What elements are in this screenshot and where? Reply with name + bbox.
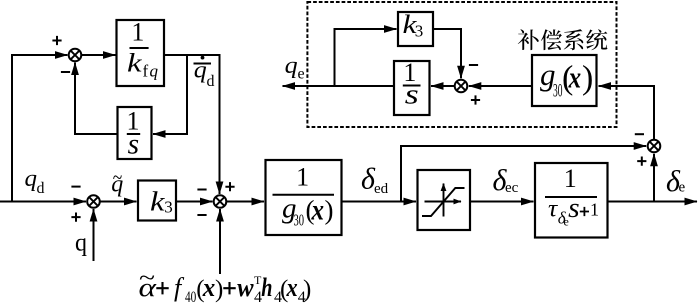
block 1/g30(x) (266, 160, 342, 235)
svg-text:x: x (286, 273, 298, 302)
svg-text:q: q (25, 166, 38, 192)
wire saturation to lag block (470, 201, 534, 203)
svg-text:1: 1 (131, 18, 144, 47)
wire branch delta_ed up to J4 (401, 146, 646, 202)
svg-text:x: x (311, 194, 324, 227)
plus sign J3 top (225, 182, 234, 191)
bottom equation (139, 266, 312, 303)
svg-text:q: q (194, 58, 207, 84)
block 1/(tau s+1) (535, 163, 608, 238)
svg-text:h: h (261, 273, 272, 302)
svg-text:s: s (128, 127, 140, 160)
svg-text:): ) (582, 59, 593, 96)
svg-text:3: 3 (415, 22, 424, 41)
summing junction J4 (648, 140, 661, 153)
svg-text:30: 30 (294, 211, 305, 230)
wire J4 up into g30 (599, 86, 655, 140)
block g30(x) compensation (532, 55, 597, 106)
wire J3 to 1/g30 (226, 201, 264, 203)
svg-text:40: 40 (185, 289, 196, 303)
plus sign J5 (471, 95, 480, 104)
wire branch down into 1/s (153, 55, 187, 134)
saturation block (418, 170, 471, 230)
svg-text:1: 1 (564, 164, 577, 193)
summing junction J2 (87, 195, 100, 208)
minus sign J4 (635, 133, 644, 135)
svg-text:ec: ec (505, 180, 519, 196)
wire q input up into J2 (93, 209, 95, 261)
svg-text:~: ~ (113, 165, 123, 190)
svg-text:q: q (150, 62, 159, 81)
wire 1/g30 to saturation (342, 201, 417, 203)
block 1/s upper-left (118, 107, 152, 159)
chinese label: compensation system (518, 29, 608, 50)
svg-text:): ) (325, 195, 334, 225)
wire g30 to J5 (469, 85, 532, 87)
block k3 compensation (398, 12, 433, 46)
wire 1/s comp out to q_e (283, 85, 395, 87)
svg-text:w: w (237, 273, 254, 302)
summing junction J1 (69, 49, 82, 62)
svg-text:1: 1 (590, 200, 599, 220)
minus sign J3 bottom (197, 214, 206, 216)
svg-text:x: x (568, 60, 581, 95)
svg-text:1: 1 (296, 163, 309, 192)
wire branch up to k3 comp (335, 29, 397, 86)
svg-text:ed: ed (374, 181, 389, 197)
wire branch up into J4 (653, 154, 655, 202)
svg-text:q: q (75, 230, 87, 257)
minus sign J2 (71, 186, 80, 188)
wire 1/s output to J1 (75, 63, 118, 135)
svg-text:q: q (285, 53, 298, 79)
svg-text:d: d (207, 73, 215, 90)
plus sign J2 (71, 213, 80, 222)
wire k3 to J3 (176, 201, 213, 203)
wire 1/kfq output down to J3 (164, 55, 220, 194)
svg-text:~: ~ (139, 266, 155, 292)
wire adaptive term up into J3 (219, 209, 221, 274)
svg-text:3: 3 (164, 198, 173, 217)
wire k3 comp down into J5 (433, 29, 461, 78)
block 1/s compensation (394, 61, 430, 115)
summing junction J5 (455, 80, 468, 93)
svg-text:x: x (202, 273, 215, 302)
svg-text:): ) (303, 276, 311, 303)
wire lag block to output delta_e (608, 201, 698, 203)
dashed compensation box (307, 2, 616, 127)
wire feedback branch up to J1 (12, 55, 68, 202)
block 1/kfq (117, 20, 165, 86)
svg-text:e: e (679, 180, 686, 196)
plus sign J1 (52, 36, 61, 45)
svg-text:s: s (405, 80, 419, 111)
svg-text:τ: τ (548, 195, 558, 222)
svg-text:s: s (568, 193, 580, 224)
minus sign J5 (469, 64, 478, 66)
wire J2 to k3 (100, 201, 137, 203)
minus sign J3 left (197, 189, 206, 191)
summing junction J3 (214, 195, 227, 208)
svg-text:d: d (37, 180, 45, 197)
block k3 middle (138, 181, 176, 221)
minus sign J1 (61, 71, 70, 73)
plus sign J4 (637, 157, 646, 166)
svg-text:f: f (143, 62, 149, 81)
wire main input qd (0, 201, 86, 203)
wire J1 to block 1/kfq (81, 54, 115, 56)
wire J5 to 1/s comp (431, 85, 455, 87)
svg-text:): ) (215, 276, 223, 303)
saturation icon (422, 184, 465, 217)
svg-text:f: f (174, 273, 185, 302)
svg-text:e: e (298, 66, 305, 83)
svg-text:k: k (127, 49, 142, 78)
